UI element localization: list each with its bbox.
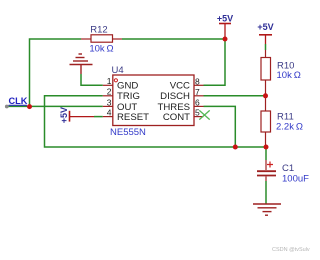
resistor R12: [81, 25, 122, 55]
junction dot THRES/bottom net: [233, 145, 238, 150]
svg-text:+5V: +5V: [257, 22, 273, 32]
svg-text:NE555N: NE555N: [110, 127, 146, 138]
junction dot DISCH/R10/R11: [263, 93, 268, 98]
svg-text:4: 4: [107, 108, 112, 118]
pin 6 THRES: [157, 98, 203, 113]
power +5V (rotated, to pin4 RESET): [59, 107, 94, 123]
wire +5V3 to pin4 RESET: [94, 116, 103, 118]
junction dot R11/C1/bottom net: [264, 145, 269, 150]
wire pin2 TRIG loop to bottom net: [45, 96, 267, 147]
svg-text:VCC: VCC: [170, 81, 190, 92]
svg-text:CONT: CONT: [163, 112, 190, 123]
resistor R10: [261, 50, 301, 96]
svg-text:C1: C1: [282, 163, 294, 174]
wire CLK junction up to R12 left: [30, 39, 82, 106]
svg-text:3: 3: [107, 97, 112, 107]
svg-text:GND: GND: [117, 81, 138, 92]
svg-text:100uF: 100uF: [282, 174, 309, 185]
svg-text:6: 6: [195, 98, 200, 108]
ground (bottom, below C1): [253, 204, 281, 215]
wire R12 right to +5V junction: [122, 38, 225, 40]
svg-text:10k Ω: 10k Ω: [89, 44, 113, 55]
wire pin6 THRES down to bottom net: [204, 106, 236, 147]
IC U4 NE555N 555 timer: [110, 65, 194, 138]
svg-text:RESET: RESET: [117, 112, 149, 123]
earth ground (top, to pin1): [70, 54, 93, 74]
pin1 marker dot: [114, 79, 117, 82]
svg-text:8: 8: [195, 76, 200, 86]
pin 2 TRIG: [103, 87, 140, 103]
svg-text:2.2k Ω: 2.2k Ω: [276, 121, 303, 132]
svg-text:+5V: +5V: [217, 14, 233, 24]
resistor R11: [261, 96, 303, 147]
wire +5V junction down to pin8 VCC: [204, 39, 226, 85]
svg-text:CSDN @tvSulv: CSDN @tvSulv: [272, 247, 310, 253]
power +5V (right, to R10): [257, 22, 273, 44]
wire pin7 DISCH to R10/R11 junction: [204, 95, 266, 97]
svg-text:2: 2: [107, 87, 112, 97]
wire R11/C1 junction to C1 top: [265, 147, 267, 160]
wire ground to pin1 GND: [81, 74, 103, 85]
port CLK: [5, 96, 28, 109]
no-connect X on pin 5: [199, 110, 209, 119]
svg-text:7: 7: [195, 87, 200, 97]
pin 7 DISCH: [160, 87, 203, 102]
junction dot CLK/OUT: [27, 104, 32, 109]
svg-text:5: 5: [195, 108, 200, 118]
power +5V (top, to VCC): [217, 14, 233, 40]
svg-text:R12: R12: [90, 25, 107, 36]
pin 8 VCC: [170, 76, 204, 91]
capacitor C1: [257, 160, 309, 185]
svg-text:CLK: CLK: [9, 96, 28, 106]
svg-text:U4: U4: [112, 65, 124, 76]
wire C1 bottom to ground: [265, 181, 267, 204]
pin 5 CONT: [163, 108, 204, 123]
junction dot +5V/R12/VCC: [223, 37, 228, 42]
svg-text:10k Ω: 10k Ω: [277, 70, 301, 81]
svg-text:DISCH: DISCH: [160, 91, 190, 102]
svg-text:1: 1: [107, 76, 112, 86]
svg-text:+5V: +5V: [59, 107, 69, 123]
pin 1 GND: [103, 76, 139, 92]
wire CLK to pin3 OUT: [7, 105, 103, 107]
pin 3 OUT: [103, 97, 138, 113]
wire +5V2 to R10 top: [265, 44, 267, 50]
svg-text:TRIG: TRIG: [117, 91, 140, 102]
pin 4 RESET: [103, 108, 149, 124]
